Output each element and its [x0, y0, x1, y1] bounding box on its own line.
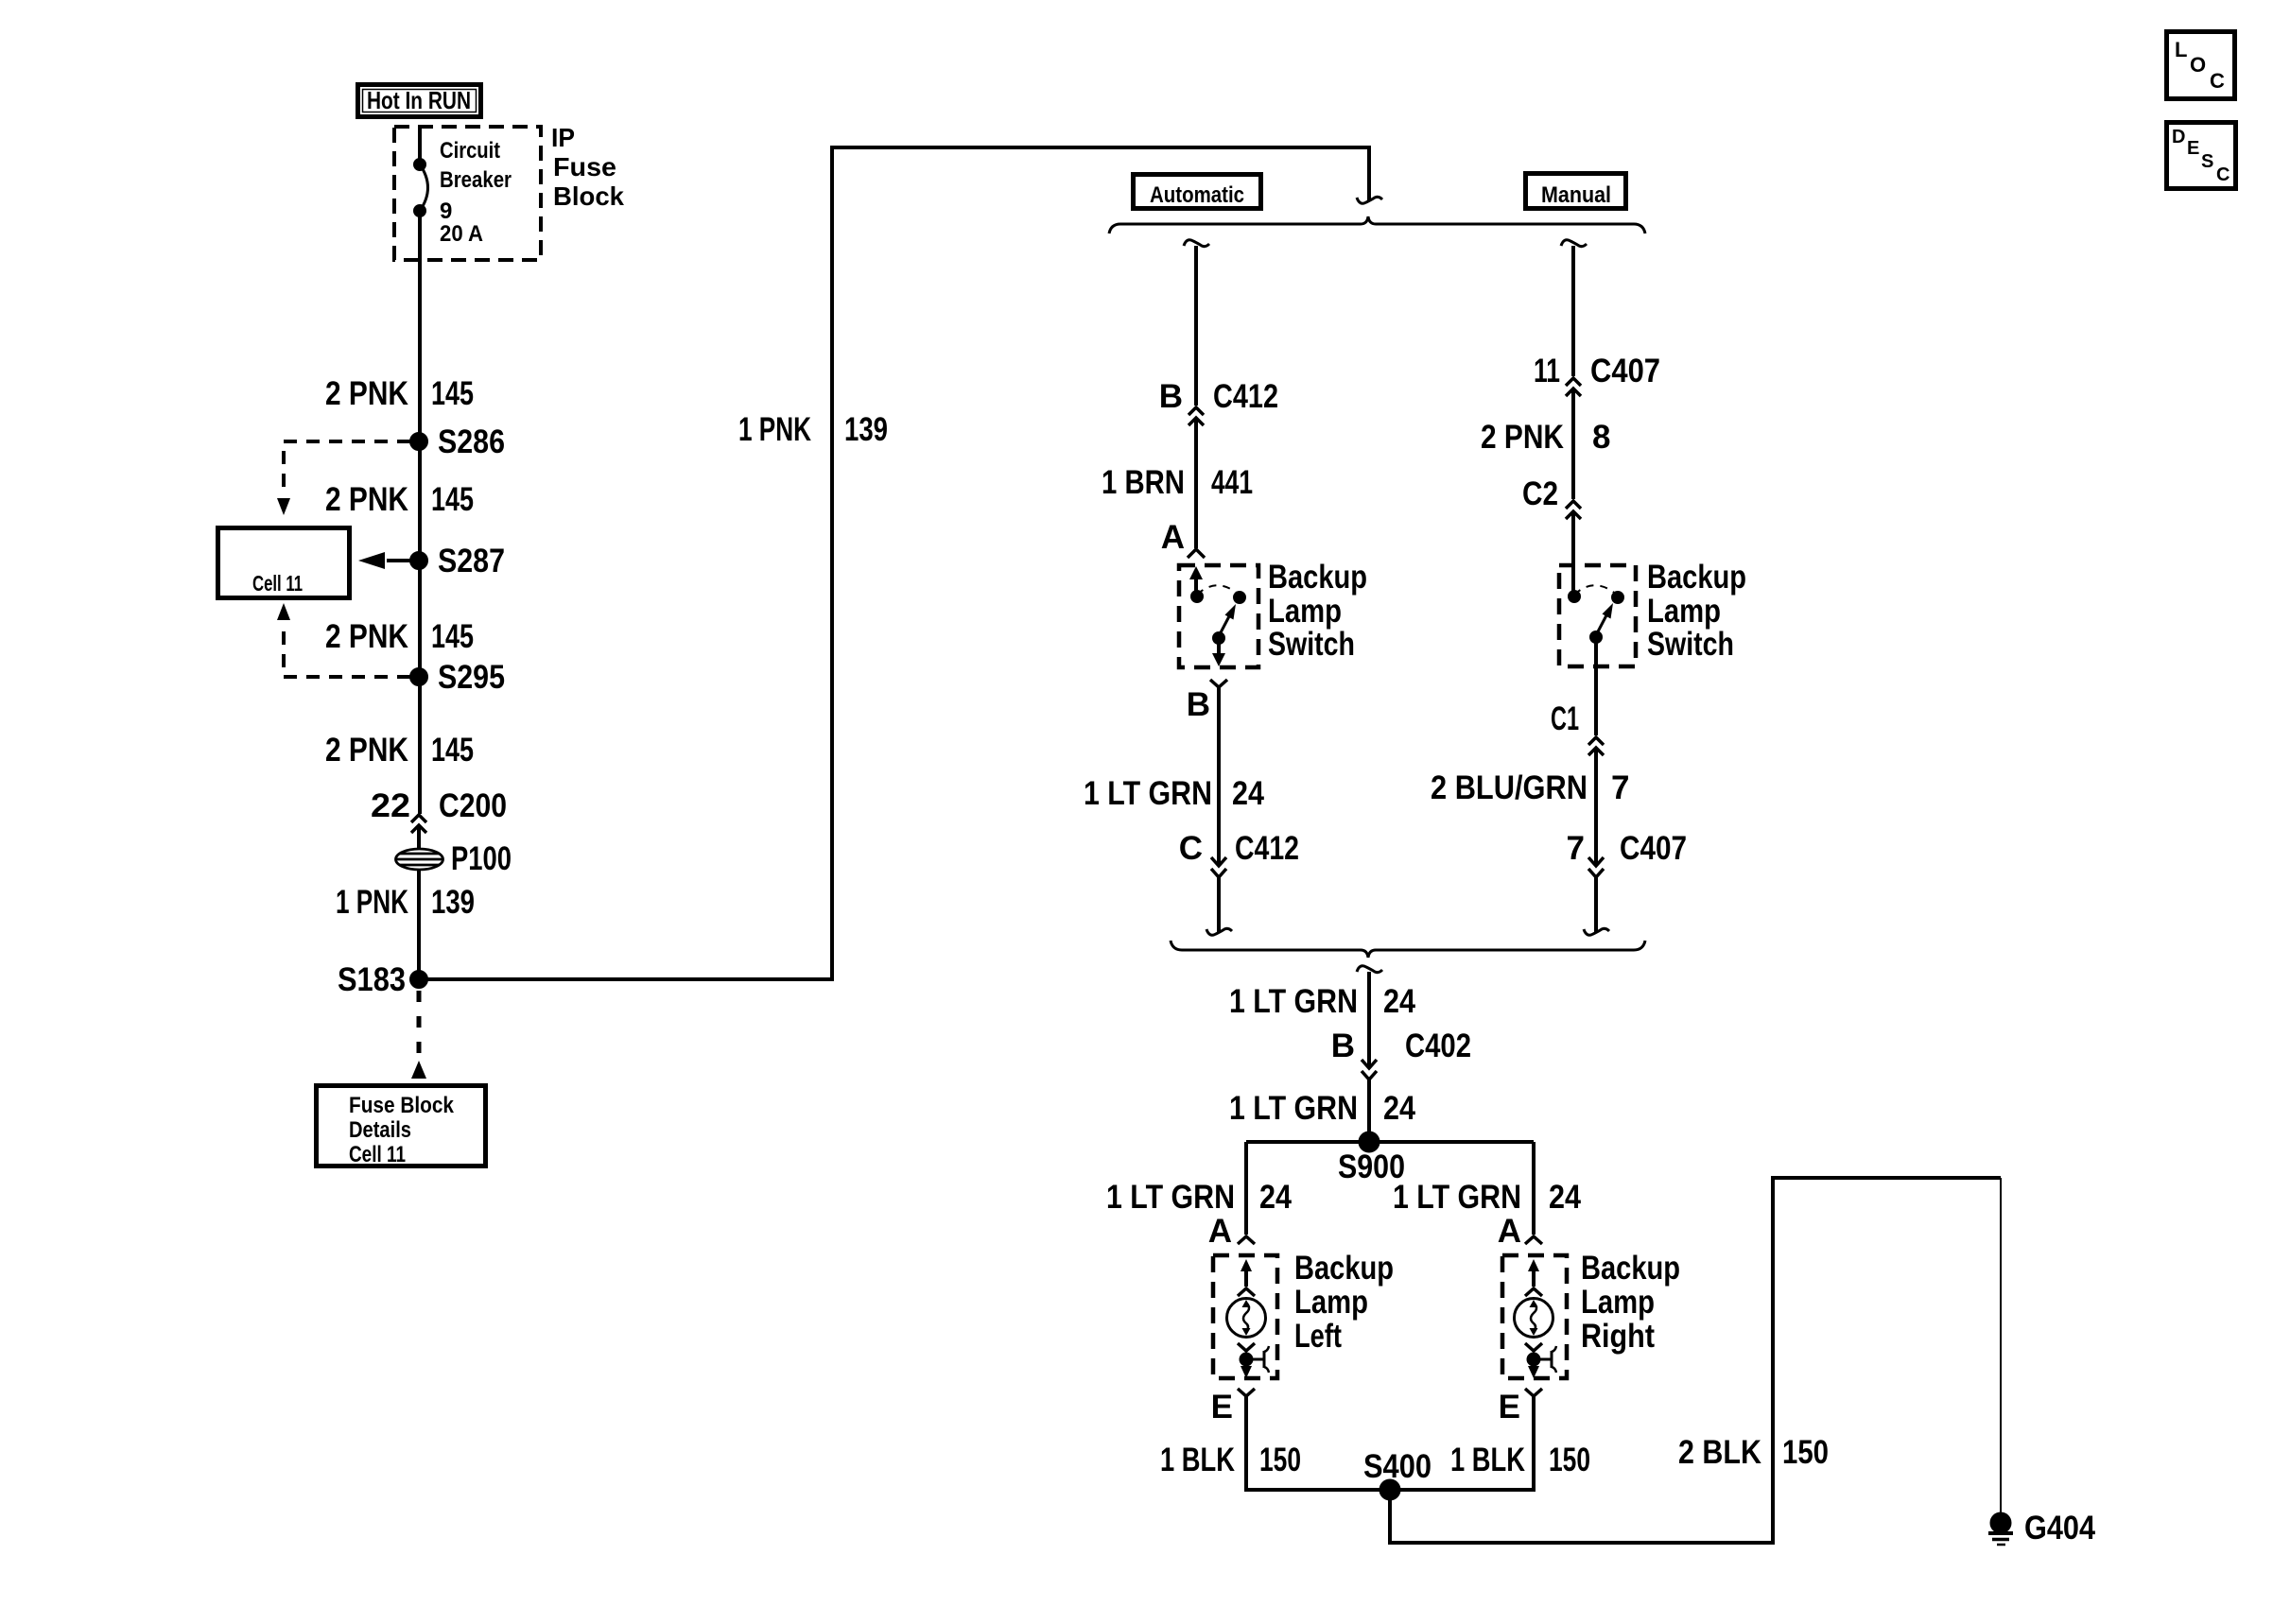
wire: right lamp drop — [1532, 1142, 1536, 1235]
svg-text:145: 145 — [431, 618, 474, 655]
svg-text:D: D — [2172, 127, 2185, 147]
svg-text:Cell 11: Cell 11 — [349, 1142, 406, 1167]
svg-text:441: 441 — [1211, 464, 1253, 501]
wire: right switch exit down — [1594, 637, 1598, 735]
svg-text:E: E — [1499, 1389, 1520, 1425]
svg-text:Lamp: Lamp — [1294, 1284, 1368, 1321]
circuit breaker 9 20A symbol — [415, 160, 428, 216]
svg-text:7: 7 — [1611, 769, 1629, 806]
svg-text:B: B — [1187, 686, 1210, 723]
label 1 LT GRN 24 (merged lower) — [1229, 1090, 1415, 1127]
svg-text:2 PNK: 2 PNK — [325, 375, 408, 412]
wire: left switch exit down — [1217, 687, 1221, 864]
svg-text:S286: S286 — [438, 423, 505, 460]
text: Circuit Breaker 9 20 A — [440, 138, 512, 247]
svg-text:1 PNK: 1 PNK — [738, 411, 811, 448]
svg-text:Circuit: Circuit — [440, 138, 500, 164]
wire: left spine from breaker to C200 — [418, 209, 422, 814]
svg-text:Breaker: Breaker — [440, 167, 512, 193]
svg-text:Automatic: Automatic — [1150, 182, 1244, 208]
dashed link S295 to Cell 11 with arrow — [277, 603, 410, 677]
label: IP Fuse Block — [551, 123, 624, 211]
wire: feed stub into circuit breaker — [418, 127, 422, 166]
lamp internals right — [1515, 1259, 1557, 1378]
label 1 LT GRN 24 (left lamp) — [1106, 1179, 1292, 1216]
lamp box left (dashed) — [1213, 1255, 1277, 1378]
label box "Hot In RUN" — [358, 85, 481, 117]
terminal A (right lamp) — [1498, 1213, 1542, 1250]
svg-text:C200: C200 — [439, 787, 507, 824]
svg-text:Switch: Switch — [1647, 626, 1734, 663]
svg-text:Details: Details — [349, 1117, 411, 1143]
svg-text:S: S — [2201, 151, 2213, 172]
label 2 BLU/GRN 7 — [1431, 769, 1629, 806]
svg-text:C: C — [1179, 830, 1203, 867]
dashed link S286 to Cell 11 with arrow — [277, 441, 410, 515]
svg-text:C407: C407 — [1590, 353, 1660, 389]
label 1 LT GRN 24 (merged upper) — [1229, 983, 1415, 1020]
svg-text:C1: C1 — [1551, 700, 1579, 737]
svg-text:2 PNK: 2 PNK — [1481, 419, 1564, 456]
svg-text:9: 9 — [440, 199, 452, 224]
grommet P100 — [396, 840, 512, 877]
svg-text:Fuse Block: Fuse Block — [349, 1093, 455, 1118]
svg-text:C2: C2 — [1522, 475, 1558, 512]
label: 1 PNK 139 (left spine) — [336, 884, 475, 921]
svg-text:S400: S400 — [1363, 1448, 1431, 1485]
text Backup Lamp Switch (left) — [1268, 559, 1367, 663]
wire: Manual branch upper with tilde top — [1561, 240, 1587, 376]
terminal A (left lamp) — [1208, 1213, 1255, 1250]
terminal A (left switch) — [1161, 519, 1205, 558]
svg-text:139: 139 — [431, 884, 475, 921]
wire: merged feed with tilde top — [1357, 966, 1382, 1068]
svg-text:1 PNK: 1 PNK — [336, 884, 408, 921]
junction S400 — [1363, 1448, 1431, 1499]
connector C2 — [1522, 475, 1581, 519]
wire: left lamp to ground rail — [1244, 1396, 1248, 1492]
wire: C200 to S183 — [417, 825, 421, 979]
text Backup Lamp Left — [1294, 1250, 1394, 1355]
svg-text:1 BLK: 1 BLK — [1160, 1442, 1235, 1478]
svg-text:2 PNK: 2 PNK — [325, 481, 408, 518]
svg-text:E: E — [1211, 1389, 1233, 1425]
text Backup Lamp Switch (right) — [1647, 559, 1746, 663]
svg-text:139: 139 — [844, 411, 888, 448]
IP fuse block dashed outline — [394, 127, 541, 260]
svg-text:24: 24 — [1259, 1179, 1292, 1216]
svg-text:G404: G404 — [2024, 1510, 2095, 1546]
brace: split into Automatic / Manual branches — [1109, 216, 1645, 233]
wire: right lamp to ground rail — [1532, 1396, 1536, 1492]
text Backup Lamp Right — [1581, 1250, 1680, 1355]
label 1 LT GRN 24 (right lamp) — [1393, 1179, 1581, 1216]
junction S286 — [411, 423, 505, 460]
wire: S900 rail — [1246, 1140, 1534, 1144]
svg-text:Manual: Manual — [1541, 182, 1611, 208]
svg-text:L: L — [2175, 38, 2187, 61]
connector C1 — [1551, 700, 1604, 755]
svg-text:150: 150 — [1782, 1434, 1829, 1471]
wire: automatic branch tail with tilde end — [1206, 877, 1232, 935]
svg-text:Right: Right — [1581, 1318, 1655, 1355]
svg-text:C: C — [2210, 69, 2225, 93]
wire: manual branch tail with tilde end — [1584, 877, 1609, 935]
svg-text:22: 22 — [371, 787, 410, 824]
switch internals right — [1570, 585, 1622, 642]
lamp internals left — [1227, 1259, 1270, 1378]
svg-text:Left: Left — [1294, 1318, 1342, 1355]
switch internals left — [1189, 566, 1244, 666]
svg-text:P100: P100 — [451, 840, 512, 877]
svg-text:145: 145 — [431, 481, 474, 518]
dashed link S183 to Fuse Block Details with arrow — [411, 991, 426, 1079]
svg-text:A: A — [1498, 1213, 1521, 1250]
wire: split stub with tilde end — [1357, 147, 1382, 203]
svg-text:24: 24 — [1232, 775, 1264, 812]
connector C C412 — [1179, 830, 1299, 877]
connector 22 C200 — [371, 787, 507, 833]
wire: merged feed to S900 — [1367, 1080, 1371, 1142]
junction S295 — [411, 659, 505, 696]
svg-text:Lamp: Lamp — [1581, 1284, 1655, 1321]
svg-text:A: A — [1161, 519, 1185, 556]
label 2 BLK 150 — [1678, 1434, 1829, 1471]
svg-text:C: C — [2216, 164, 2230, 185]
brace: merge branches — [1171, 941, 1645, 958]
svg-text:11: 11 — [1534, 353, 1560, 389]
wire: manual branch into switch — [1571, 511, 1575, 595]
svg-text:Backup: Backup — [1268, 559, 1367, 596]
label: 2 PNK 145 (1) — [325, 375, 474, 412]
svg-text:1 LT GRN: 1 LT GRN — [1393, 1179, 1521, 1216]
svg-text:2 BLU/GRN: 2 BLU/GRN — [1431, 769, 1588, 806]
label 2 PNK 8 — [1481, 419, 1610, 456]
wire: S400 to ground run — [1390, 1178, 2001, 1543]
label: 2 PNK 145 (4) — [325, 732, 474, 769]
terminal B below left switch — [1187, 680, 1227, 723]
svg-text:1 BLK: 1 BLK — [1450, 1442, 1525, 1478]
svg-text:E: E — [2187, 138, 2199, 159]
junction S900 — [1338, 1133, 1405, 1186]
connector 11 C407 — [1534, 353, 1660, 396]
svg-text:Block: Block — [553, 181, 624, 211]
svg-text:1 LT GRN: 1 LT GRN — [1229, 983, 1358, 1020]
svg-text:2 BLK: 2 BLK — [1678, 1434, 1761, 1471]
label 1 BLK 150 (right) — [1450, 1442, 1590, 1478]
svg-text:1 BRN: 1 BRN — [1102, 464, 1185, 501]
svg-text:Hot In RUN: Hot In RUN — [367, 86, 471, 114]
label 1 BRN 441 — [1102, 464, 1253, 501]
box Cell 11 — [218, 528, 350, 598]
svg-text:Lamp: Lamp — [1647, 593, 1721, 630]
label 1 BLK 150 (left) — [1160, 1442, 1301, 1478]
wire: top run to split point — [830, 146, 1371, 149]
svg-text:24: 24 — [1549, 1179, 1581, 1216]
svg-text:Backup: Backup — [1581, 1250, 1680, 1287]
lamp box right (dashed) — [1502, 1255, 1567, 1378]
svg-text:Backup: Backup — [1647, 559, 1746, 596]
svg-text:C407: C407 — [1620, 830, 1687, 867]
arrow S287 to Cell 11 — [358, 552, 410, 569]
svg-text:8: 8 — [1592, 419, 1610, 456]
svg-text:Lamp: Lamp — [1268, 593, 1342, 630]
switch box left (dashed) — [1179, 565, 1258, 667]
wire: manual branch lower — [1594, 748, 1598, 864]
wire: left lamp drop — [1244, 1142, 1248, 1235]
svg-text:O: O — [2190, 53, 2206, 77]
label: 2 PNK 145 (2) — [325, 481, 474, 518]
wire: riser x=880 — [830, 146, 834, 981]
svg-text:150: 150 — [1259, 1442, 1301, 1478]
svg-text:145: 145 — [431, 732, 474, 769]
svg-text:Switch: Switch — [1268, 626, 1355, 663]
wire: S183 to riser — [419, 977, 832, 981]
svg-text:S287: S287 — [438, 543, 505, 579]
wire: manual branch mid — [1571, 389, 1575, 499]
box label Automatic — [1134, 175, 1261, 209]
terminal E (right lamp) — [1499, 1389, 1542, 1425]
svg-text:145: 145 — [431, 375, 474, 412]
svg-text:Cell 11: Cell 11 — [252, 571, 303, 596]
svg-text:2 PNK: 2 PNK — [325, 618, 408, 655]
svg-text:C412: C412 — [1213, 378, 1278, 415]
reference box LOC — [2167, 32, 2235, 99]
terminal E (left lamp) — [1211, 1389, 1255, 1425]
label: 1 PNK 139 (riser) — [738, 411, 888, 448]
svg-text:B: B — [1159, 378, 1183, 415]
label 1 LT GRN 24 (automatic lower) — [1084, 775, 1264, 812]
label: 2 PNK 145 (3) — [325, 618, 474, 655]
wire: Automatic branch to switch — [1194, 418, 1198, 548]
ground G404 — [1988, 1510, 2095, 1546]
svg-text:7: 7 — [1567, 830, 1585, 867]
svg-text:S183: S183 — [338, 961, 406, 998]
box label Manual — [1526, 174, 1626, 209]
wire: Automatic branch upper with tilde top — [1184, 240, 1209, 406]
svg-text:24: 24 — [1383, 983, 1415, 1020]
svg-text:S295: S295 — [438, 659, 505, 696]
svg-text:A: A — [1208, 1213, 1232, 1250]
svg-text:B: B — [1331, 1028, 1355, 1064]
svg-text:Fuse: Fuse — [553, 152, 616, 181]
svg-text:IP: IP — [551, 123, 575, 152]
wire: thin drop to G404 — [2000, 1178, 2002, 1512]
junction S287 — [411, 543, 505, 579]
wire: ground rail — [1246, 1488, 1534, 1492]
svg-text:C412: C412 — [1235, 830, 1299, 867]
connector 7 C407 — [1567, 830, 1687, 877]
svg-text:20 A: 20 A — [440, 221, 483, 247]
svg-text:1 LT GRN: 1 LT GRN — [1229, 1090, 1358, 1127]
svg-text:2 PNK: 2 PNK — [325, 732, 408, 769]
svg-text:150: 150 — [1549, 1442, 1590, 1478]
reference box DESC — [2167, 123, 2236, 189]
junction S183 — [338, 961, 426, 998]
svg-text:1 LT GRN: 1 LT GRN — [1084, 775, 1212, 812]
svg-text:C402: C402 — [1405, 1028, 1471, 1064]
svg-text:Backup: Backup — [1294, 1250, 1394, 1287]
svg-text:1 LT GRN: 1 LT GRN — [1106, 1179, 1235, 1216]
svg-text:24: 24 — [1383, 1090, 1415, 1127]
switch box right (dashed) — [1559, 565, 1636, 666]
connector B C402 — [1331, 1028, 1471, 1080]
connector B C412 — [1159, 378, 1278, 425]
box Fuse Block Details Cell 11 — [317, 1086, 486, 1168]
